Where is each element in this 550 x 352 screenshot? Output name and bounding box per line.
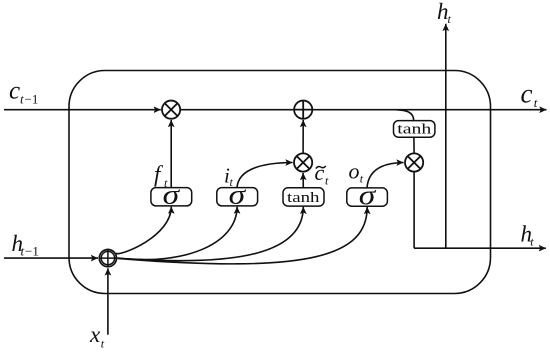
wire tanh gate box to candidate multiply [302,173,304,188]
svg-text:−1: −1 [25,243,39,258]
wire o-gate curve to output multiply [367,163,404,188]
f-gate sigma box [151,188,192,206]
multiply node (output gate) [405,153,423,171]
wire c-line output segment [313,109,547,111]
svg-text:t: t [325,174,329,188]
wire f-gate to multiply [170,120,172,188]
svg-text:t: t [20,91,24,106]
svg-text:tanh: tanh [397,122,432,138]
i-gate sigma box [217,188,258,206]
wire c-line branch to tanh [397,110,414,121]
o-gate sigma box [347,188,388,206]
svg-text:t: t [101,337,105,351]
wire concat to tanh gate [118,207,304,261]
svg-text:tanh: tanh [287,190,320,206]
wire c-line input segment [4,109,161,111]
wire concat to i-gate [118,207,238,260]
svg-text:−1: −1 [25,91,39,106]
wire i-gate curve to candidate multiply [237,163,293,188]
svg-text:t: t [530,234,534,248]
cell body rounded rectangle [69,71,491,294]
svg-text:c: c [315,160,325,185]
wire candidate multiply to add node [302,120,304,153]
multiply node (forget gate) [162,101,180,119]
wire tanh box to output multiply [413,137,415,153]
wire h output up branch [445,24,447,248]
svg-text:c: c [9,78,20,105]
svg-text:x: x [89,322,101,347]
svg-text:t: t [448,12,452,26]
svg-text:σ: σ [229,180,248,210]
wire x input [107,268,109,334]
wire c-line middle segment [181,109,294,111]
svg-text:σ: σ [359,180,378,210]
add node [294,101,312,119]
svg-text:t: t [21,243,25,258]
concat node (double circle) [99,250,116,267]
wire h output right segment [414,247,546,249]
tanh output box [394,121,435,138]
svg-text:σ: σ [163,180,182,210]
wire h previous input [4,257,98,259]
wire concat to f-gate [116,207,172,254]
svg-text:c: c [521,78,533,108]
tilde over candidate c [316,166,326,169]
svg-text:t: t [534,95,538,110]
wire concat to o-gate [118,207,368,264]
multiply node (candidate x input gate) [294,153,312,171]
wire h output down segment [413,172,415,248]
tanh gate box [283,188,324,206]
